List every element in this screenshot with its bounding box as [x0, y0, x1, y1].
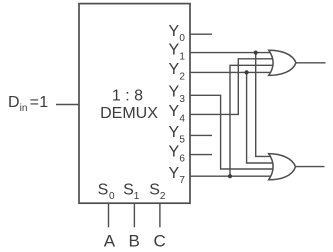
label Y0 — [169, 23, 186, 44]
or-gate G2 — [269, 154, 296, 180]
junction dot Y2 — [245, 70, 249, 74]
svg-text:Y: Y — [169, 84, 180, 101]
svg-text:4: 4 — [179, 113, 185, 124]
svg-text:0: 0 — [179, 33, 185, 44]
label Y2 — [169, 61, 186, 82]
wire select A — [108, 203, 110, 227]
wire G2 output — [296, 166, 325, 168]
label Y7 — [169, 165, 186, 186]
svg-text:1: 1 — [179, 52, 185, 63]
junction dot Y1 — [254, 51, 258, 55]
svg-text:S: S — [149, 182, 160, 199]
svg-text:Y: Y — [169, 61, 180, 78]
label Y5 — [169, 124, 186, 145]
wire Y2 to gate G1 — [190, 71, 278, 73]
label Y3 — [169, 84, 186, 106]
svg-text:S: S — [98, 182, 109, 199]
wire Y3 horizontal — [190, 95, 278, 169]
svg-text:1 : 8: 1 : 8 — [112, 88, 143, 105]
wire select C — [159, 203, 161, 227]
wire Y7 branch vertical — [230, 65, 278, 176]
svg-text:Y: Y — [169, 103, 180, 120]
svg-text:1: 1 — [134, 191, 140, 202]
wire Din input — [56, 104, 79, 106]
svg-text:Y: Y — [169, 143, 180, 160]
svg-text:2: 2 — [179, 71, 185, 82]
label Y6 — [169, 143, 186, 164]
label 1 : 8 DEMUX — [100, 88, 158, 123]
or-gate G1 — [269, 50, 296, 75]
svg-text:1: 1 — [39, 94, 48, 111]
wire Y0 stub — [190, 33, 212, 35]
label Y1 — [169, 41, 186, 62]
label Y4 — [169, 103, 186, 124]
svg-text:7: 7 — [179, 175, 185, 186]
label Din = 1 — [8, 94, 48, 114]
svg-text:Y: Y — [169, 41, 180, 58]
svg-text:=: = — [30, 94, 39, 111]
wire Y1 to gate G1 — [190, 52, 278, 54]
label S1 — [123, 182, 140, 202]
svg-text:C: C — [153, 232, 165, 251]
wire Y2 branch vertical — [247, 72, 278, 163]
svg-text:B: B — [129, 232, 140, 251]
svg-text:3: 3 — [179, 94, 185, 105]
svg-text:S: S — [123, 182, 134, 199]
svg-text:DEMUX: DEMUX — [100, 105, 158, 122]
demux box U1 — [79, 4, 190, 204]
svg-text:Y: Y — [169, 165, 180, 182]
svg-text:6: 6 — [179, 154, 185, 165]
wire select B — [133, 203, 135, 227]
svg-text:Y: Y — [169, 124, 180, 141]
svg-text:Y: Y — [169, 23, 180, 40]
svg-text:5: 5 — [179, 134, 185, 145]
wire Y7 to gate G2 — [190, 175, 278, 177]
wire Y1 branch vertical — [256, 53, 278, 157]
svg-text:2: 2 — [160, 191, 166, 202]
junction dot Y7 — [228, 174, 232, 178]
svg-text:A: A — [104, 232, 116, 251]
svg-text:D: D — [8, 94, 20, 111]
wire Y4 horizontal — [190, 59, 278, 115]
wire G1 output — [296, 62, 326, 64]
wire Y6 stub — [190, 154, 212, 156]
svg-text:0: 0 — [109, 191, 115, 202]
label S2 — [149, 182, 166, 202]
svg-text:in: in — [20, 103, 28, 114]
label S0 — [98, 182, 115, 202]
wire Y5 stub — [190, 134, 212, 136]
